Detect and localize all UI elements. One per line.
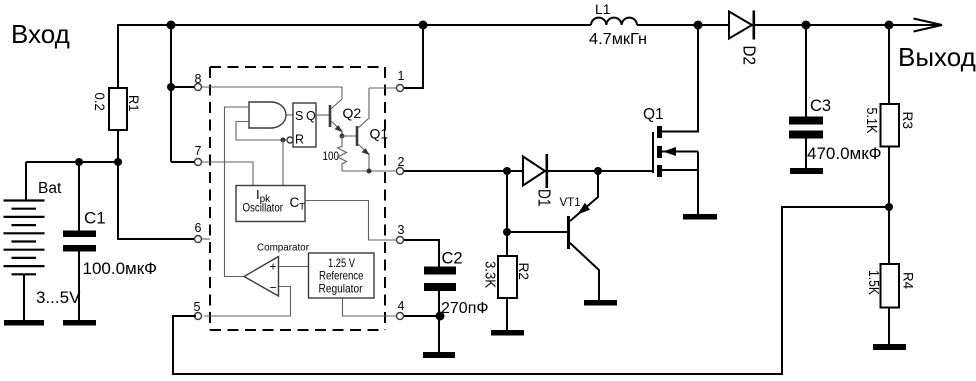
output arrow xyxy=(914,19,943,32)
pin 2 xyxy=(397,168,404,175)
svg-text:C1: C1 xyxy=(84,209,106,228)
wire internal emitter rail to pin 2 xyxy=(342,170,396,172)
wire top rail left part xyxy=(117,24,591,26)
svg-text:Q2: Q2 xyxy=(343,105,362,121)
svg-text:Oscillator: Oscillator xyxy=(243,201,284,215)
svg-text:C2: C2 xyxy=(442,250,463,268)
node pin2 row / VT1 emitter xyxy=(594,167,602,175)
svg-text:Comparator: Comparator xyxy=(257,242,309,254)
wire Q2 emitter to Q1 base xyxy=(342,135,356,137)
resistor R2 xyxy=(498,256,517,298)
wire battery row xyxy=(26,161,118,163)
pin 7 xyxy=(195,159,202,166)
svg-text:R1: R1 xyxy=(126,95,142,112)
pin 4 xyxy=(397,313,404,320)
ground Q1 xyxy=(683,214,717,220)
pin 3 xyxy=(397,237,404,244)
node R line / oscillator xyxy=(281,138,286,143)
resistor R4 xyxy=(881,264,900,308)
node Q1 emitter / pin2 rail xyxy=(367,169,372,174)
wire pin 2 row to MOSFET gate xyxy=(404,170,523,172)
svg-text:D2: D2 xyxy=(740,46,760,66)
svg-text:7: 7 xyxy=(195,144,202,158)
svg-text:270пФ: 270пФ xyxy=(441,300,489,317)
diode D2 xyxy=(729,12,752,39)
svg-text:5: 5 xyxy=(194,300,201,314)
svg-text:4: 4 xyxy=(398,299,405,313)
svg-text:4.7мкГн: 4.7мкГн xyxy=(589,31,647,48)
ground R2 xyxy=(491,330,524,336)
wire pin 6 branch xyxy=(118,162,194,239)
node battery row / C1 xyxy=(75,158,83,166)
node VT1 base junction xyxy=(503,228,511,236)
wire pin 7 lead xyxy=(171,161,194,163)
svg-text:+: + xyxy=(270,260,277,274)
wire comparator minus input to pin 5 xyxy=(204,287,291,317)
svg-text:C3: C3 xyxy=(810,97,831,115)
svg-text:8: 8 xyxy=(195,72,202,86)
wire R2 branch vertical xyxy=(506,171,508,256)
wire pin 8 internal rail xyxy=(202,86,342,88)
svg-text:6: 6 xyxy=(195,221,202,235)
latch R inversion bubble xyxy=(287,137,293,143)
node riser / pin 8 xyxy=(167,83,175,91)
ground C1 xyxy=(63,320,96,326)
svg-text:R: R xyxy=(295,133,304,147)
node pin2 row / R2 branch xyxy=(503,167,511,175)
node top rail / R3 xyxy=(885,21,894,30)
wire and bottom input feedback from R xyxy=(236,122,287,141)
wire pin 4 to C2 node xyxy=(404,315,440,317)
node top rail / Q1 drain xyxy=(694,21,703,30)
svg-text:0.2: 0.2 xyxy=(92,93,108,111)
latch S-R box xyxy=(293,103,316,147)
node C2 / pin 4 xyxy=(436,312,445,321)
wire top rail right part xyxy=(637,24,941,26)
svg-text:Bat: Bat xyxy=(38,180,62,197)
wire and top input from comparator xyxy=(225,107,250,277)
pin 8 xyxy=(195,84,202,91)
svg-text:Q: Q xyxy=(306,109,316,123)
pin 5 xyxy=(195,313,202,320)
node battery row / R1-pin6 xyxy=(114,158,122,166)
svg-text:Выход: Выход xyxy=(898,42,976,72)
svg-text:VT1: VT1 xyxy=(560,197,581,209)
and gate U1a xyxy=(249,102,286,128)
wire D1 cathode to gate xyxy=(548,170,652,172)
pin 1 xyxy=(397,85,404,92)
svg-text:470.0мкФ: 470.0мкФ xyxy=(807,144,882,163)
wire pin 1 riser xyxy=(404,25,423,88)
pin 6 xyxy=(195,236,202,243)
svg-text:S: S xyxy=(295,109,303,123)
svg-text:Q1: Q1 xyxy=(643,106,664,123)
node top rail / pin 1 riser xyxy=(419,21,428,30)
MC34063 dashed box xyxy=(210,67,385,330)
svg-text:D1: D1 xyxy=(535,189,555,207)
svg-text:R2: R2 xyxy=(516,263,532,281)
ground battery xyxy=(4,320,44,326)
node feedback tap xyxy=(885,203,893,211)
wire pin 6 stub xyxy=(202,238,210,240)
wire feedback loop to pin 5 xyxy=(173,207,889,374)
wire comparator plus input xyxy=(279,266,309,268)
svg-text:100.0мкФ: 100.0мкФ xyxy=(83,259,158,278)
svg-text:−: − xyxy=(270,281,277,295)
wire CT to pin 3 xyxy=(305,201,396,241)
svg-text:1: 1 xyxy=(398,69,405,83)
svg-text:3: 3 xyxy=(398,223,405,237)
inductor L1 xyxy=(591,18,637,25)
ground R4 xyxy=(873,344,906,350)
svg-text:R3: R3 xyxy=(900,112,916,130)
oscillator box xyxy=(236,186,305,222)
ground VT1 xyxy=(584,300,617,306)
ground C3 xyxy=(790,168,823,174)
svg-text:Вход: Вход xyxy=(11,19,70,49)
node top rail / C3 xyxy=(802,21,811,30)
wire pin 8 lead xyxy=(171,86,194,88)
svg-text:1.5K: 1.5K xyxy=(865,270,881,295)
svg-text:3.3K: 3.3K xyxy=(482,261,498,288)
ground C2 xyxy=(423,352,455,358)
diode D1 xyxy=(523,157,545,186)
resistor R3 xyxy=(888,25,890,104)
svg-text:L1: L1 xyxy=(595,1,611,17)
resistor R1 xyxy=(117,25,119,88)
wire pin 7 to oscillator xyxy=(202,162,253,186)
svg-text:Q1: Q1 xyxy=(370,126,389,142)
wire pins 7-8 riser xyxy=(170,25,172,162)
svg-text:Reference: Reference xyxy=(319,269,364,283)
node top rail / pins 7-8 riser xyxy=(167,21,176,30)
wire reference output to pin 4 xyxy=(343,298,397,316)
svg-text:2: 2 xyxy=(398,155,405,169)
reference regulator box xyxy=(309,253,375,298)
svg-text:R4: R4 xyxy=(901,272,917,289)
svg-text:Regulator: Regulator xyxy=(319,282,363,296)
wire R node to oscillator xyxy=(282,140,284,186)
svg-text:5.1K: 5.1K xyxy=(863,108,879,134)
svg-text:3...5V: 3...5V xyxy=(36,288,81,307)
node Q2 emitter / Q1 base / 100R xyxy=(340,134,345,139)
wire and output to S xyxy=(286,114,293,116)
